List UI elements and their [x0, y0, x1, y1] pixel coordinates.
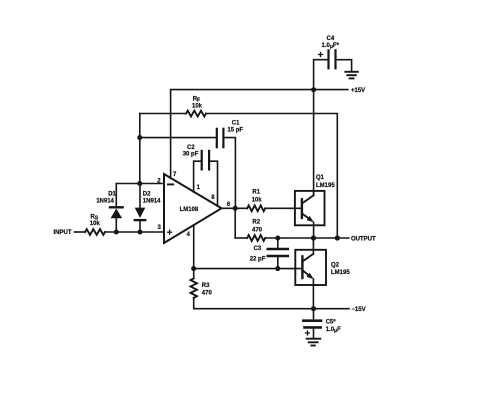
ground (C4) [345, 72, 358, 79]
svg-text:−15V: −15V [351, 307, 365, 313]
label C4 value [322, 36, 340, 50]
svg-text:30 pF: 30 pF [183, 151, 199, 157]
label C1 value [227, 121, 243, 134]
svg-text:C3: C3 [254, 246, 262, 252]
wire R3 bottom to -15V rail [194, 298, 314, 309]
capacitor C4 [329, 50, 336, 68]
pin 3 label [158, 225, 162, 231]
svg-text:LM195: LM195 [331, 270, 350, 276]
svg-text:R1: R1 [252, 190, 260, 196]
label C3 value [250, 246, 266, 262]
node junction C3 top [275, 235, 280, 240]
wire inverting node to op-amp pin 2 [116, 183, 164, 185]
wire R2 branch down [234, 208, 236, 238]
node junction D1-input [114, 229, 119, 234]
wire input to op-amp pin 3 [105, 231, 164, 233]
label Q2 [331, 263, 350, 276]
svg-text:LM195: LM195 [316, 183, 335, 189]
wire C1 to output node [223, 138, 235, 209]
transistor Q1 LM195 [295, 191, 325, 238]
pin 6 label [227, 202, 231, 208]
svg-text:1.0μF: 1.0μF [326, 327, 341, 334]
svg-text:3: 3 [158, 225, 162, 231]
svg-text:470: 470 [202, 290, 213, 296]
wire C4 to ground [336, 60, 352, 72]
wire pin 1 riser [194, 161, 202, 192]
svg-text:+15V: +15V [351, 88, 365, 94]
node junction C1 branch [137, 135, 142, 140]
wire C2 to pin 8 [209, 161, 217, 206]
label D2 [143, 192, 161, 205]
label plus input [168, 230, 172, 234]
svg-text:INPUT: INPUT [54, 230, 72, 236]
wire pin 7 to +15V rail [171, 90, 314, 179]
svg-text:8: 8 [211, 195, 215, 201]
label minus input [168, 183, 173, 185]
pin 4 label [187, 232, 191, 238]
resistor R3 [191, 278, 197, 297]
wire output rail [265, 237, 349, 239]
diode D2 [135, 184, 146, 233]
resistor R2 [247, 235, 265, 241]
label -15V [351, 307, 365, 313]
wire pin 4 down [193, 225, 195, 269]
wire Rf to feedback corner [206, 114, 337, 239]
svg-text:4: 4 [187, 232, 191, 238]
wire to R2 [235, 237, 247, 239]
op-amp U1 LM108 [164, 174, 222, 243]
node junction +15V [311, 87, 316, 92]
svg-text:C2: C2 [187, 145, 195, 151]
svg-text:Q1: Q1 [316, 175, 325, 181]
svg-text:1N914: 1N914 [143, 199, 161, 205]
svg-text:22 pF: 22 pF [250, 256, 266, 262]
label C5 plus [306, 331, 310, 335]
svg-text:10k: 10k [252, 198, 263, 204]
label R3 value [202, 283, 213, 296]
transistor Q2 LM195 [295, 238, 326, 309]
label R2 value [252, 220, 263, 234]
svg-text:10k: 10k [90, 221, 101, 227]
wire R1 to Q1 base [265, 207, 302, 209]
wire +15V stub [314, 89, 348, 91]
node junction output/C1/R2 [233, 206, 238, 211]
node junction C3 bottom [275, 266, 280, 271]
pin 7 label [173, 172, 177, 178]
node INPUT label [54, 230, 72, 236]
resistor Rs [85, 229, 105, 235]
pin 2 label [157, 179, 161, 185]
svg-text:R2: R2 [252, 220, 260, 226]
label R1 value [252, 190, 263, 204]
resistor R1 [247, 205, 265, 211]
diode D1 [110, 184, 123, 233]
wire to Q2 base [194, 268, 303, 270]
svg-text:470: 470 [252, 227, 263, 233]
svg-text:C5*: C5* [326, 320, 337, 326]
svg-text:R3: R3 [202, 283, 210, 289]
svg-text:OUTPUT: OUTPUT [351, 236, 376, 242]
wire C4 riser [314, 60, 329, 90]
wire to Rf [140, 113, 186, 115]
svg-text:C1: C1 [232, 121, 240, 127]
label Rf value [192, 97, 203, 110]
capacitor C2 [202, 151, 209, 170]
wire -15V stub [314, 308, 350, 310]
node junction D2-input [137, 229, 142, 234]
wire R3 top lead [193, 269, 195, 279]
svg-text:D1: D1 [108, 192, 116, 198]
pin 8 label [211, 195, 215, 201]
svg-text:6: 6 [227, 202, 231, 208]
svg-text:10k: 10k [192, 104, 203, 110]
label LM108 [180, 207, 199, 213]
svg-text:C4: C4 [327, 36, 335, 42]
capacitor C5 [303, 309, 321, 339]
wire +15V rail down to Q1 collector [313, 90, 315, 195]
label OUTPUT [351, 236, 376, 242]
svg-text:1N914: 1N914 [96, 199, 114, 205]
wire op-amp output [222, 207, 248, 209]
svg-text:1.0μF*: 1.0μF* [322, 43, 340, 50]
label +15V [351, 88, 365, 94]
capacitor C3 [268, 238, 288, 269]
ground (C5) [307, 339, 321, 346]
resistor Rf [186, 111, 206, 117]
svg-text:1: 1 [197, 185, 201, 191]
label C2 value [183, 145, 199, 157]
wire input lead [75, 231, 86, 233]
label C4 plus [319, 53, 323, 57]
svg-text:D2: D2 [143, 192, 151, 198]
wire feedback vertical riser [139, 114, 141, 184]
svg-text:15 pF: 15 pF [227, 128, 243, 134]
node junction -15V [311, 306, 316, 311]
svg-text:7: 7 [173, 172, 177, 178]
capacitor C1 [217, 129, 224, 147]
label D1 [96, 192, 116, 205]
node junction Q1 emitter/Q2 collector [311, 235, 316, 240]
label Q1 [316, 175, 335, 189]
label C5 value [326, 320, 341, 335]
label Rs value [90, 214, 101, 227]
node junction feedback/output [335, 235, 340, 240]
node junction feedback/pin2 [137, 181, 142, 186]
svg-text:Q2: Q2 [331, 263, 340, 269]
pin 1 label [197, 185, 201, 191]
wire C1 branch horizontal [140, 137, 217, 139]
svg-text:LM108: LM108 [180, 207, 199, 213]
node junction pin4/R3/Q2 base [191, 266, 196, 271]
